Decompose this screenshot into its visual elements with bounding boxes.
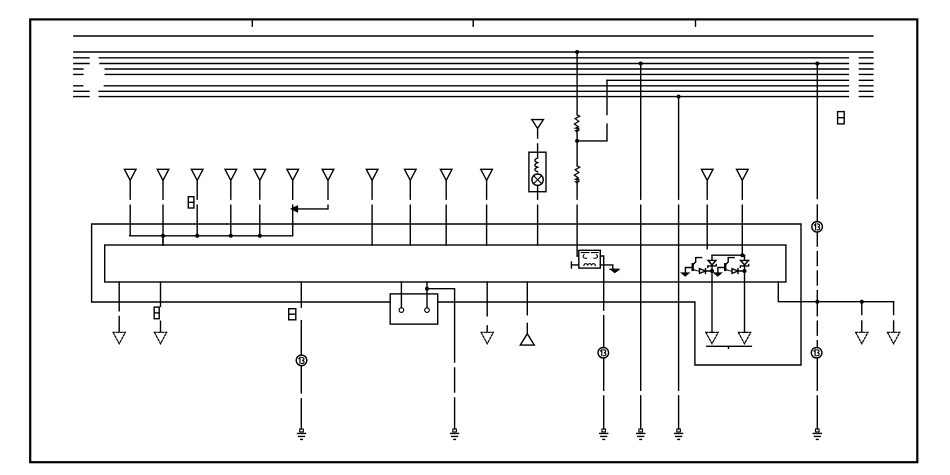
lamp component box xyxy=(529,152,546,192)
splice circle S4 xyxy=(296,355,307,366)
up triangle G4 xyxy=(520,334,534,345)
wire stem A1 xyxy=(129,180,131,235)
wire stem A11 xyxy=(486,180,488,245)
relay branch wire to ground xyxy=(427,289,455,429)
long wire from bus D to ground (x=640) xyxy=(640,64,642,430)
wire stem C2 xyxy=(741,180,743,255)
junction dot x640 on bus D xyxy=(639,62,643,66)
wire bus B xyxy=(74,51,873,53)
wire Z2 to node xyxy=(744,266,746,271)
ground symbol x678 xyxy=(675,429,683,439)
connector triangle A11 xyxy=(481,169,493,180)
connector symbol (2-cell) on stem A3 xyxy=(188,197,194,208)
igniter coil sub-box xyxy=(579,250,601,268)
wire coil to x603 drop xyxy=(600,256,603,282)
wire ECU pin down to shield triangle G3 xyxy=(486,282,488,332)
relay box xyxy=(390,294,438,324)
wire bus D xyxy=(74,63,873,65)
wire stem A2 xyxy=(162,180,164,245)
fusible link FL2 xyxy=(574,166,579,183)
wire stem A9 xyxy=(409,180,411,245)
connector triangle C1 xyxy=(701,169,713,180)
ground symbol x817 xyxy=(813,429,821,439)
connector symbol (2-cell) beside G2 wire xyxy=(154,307,159,319)
spark output triangle P2 (dashed) xyxy=(738,332,750,343)
wire down to triangle G6 xyxy=(893,302,895,332)
junction dot step wire xyxy=(575,139,579,143)
lamp bulb cross xyxy=(534,176,542,184)
wire step from bus G xyxy=(577,80,607,141)
long wire from bus D to ground (x=817) xyxy=(816,64,818,222)
top border tick 3 xyxy=(695,20,697,26)
wire bus C xyxy=(74,57,873,59)
connector triangle A6 xyxy=(287,169,299,180)
junction dot x817 on bus D xyxy=(815,62,819,66)
wire ECU pin down to up-triangle G4 xyxy=(526,282,528,334)
Q2 collector lead xyxy=(725,258,734,265)
connector symbol (2-cell) right of bus dash xyxy=(838,112,845,124)
wire stem B1 xyxy=(537,128,539,152)
zener Z1 xyxy=(708,255,716,267)
connector triangle A3 xyxy=(191,169,203,180)
wire bus J xyxy=(74,96,873,98)
relay wires inside box xyxy=(401,294,427,308)
wire ECU pin down to shield triangle G2 xyxy=(160,282,162,332)
zener Z2 xyxy=(740,255,748,267)
junction dot x678 on bus J xyxy=(677,95,681,99)
coil core dashed line xyxy=(581,252,598,254)
connector triangle C2 xyxy=(737,169,749,180)
wire bus F xyxy=(74,73,873,75)
connector triangle A10 xyxy=(440,169,452,180)
junction dots on collector xyxy=(161,234,262,238)
connector triangle A9 xyxy=(405,169,417,180)
wire bus A xyxy=(74,35,873,37)
splice circle S3 xyxy=(811,347,822,358)
Q1 emitter lead xyxy=(685,268,693,273)
ECU inner unit xyxy=(105,245,786,282)
relay terminal circle 1 xyxy=(399,308,404,313)
Q1 emitter ground wedge xyxy=(681,273,689,276)
Q1 base lead dashes xyxy=(693,269,699,271)
connector triangle A5 xyxy=(254,169,266,180)
junction dot fuse wire on bus B xyxy=(575,50,579,54)
wire stem A5 xyxy=(259,180,261,235)
connector triangle A1 xyxy=(124,169,136,180)
wire ECU right pin to right branch xyxy=(778,282,893,302)
junction dot right branch x862 xyxy=(860,300,864,304)
Q2 emitter lead xyxy=(718,268,726,273)
junction dot Q1 node xyxy=(710,269,714,273)
signal arrow onto stem A6 xyxy=(292,206,298,211)
internal ground wedge xyxy=(612,270,618,272)
wire down to triangle G5 xyxy=(861,302,863,332)
wire stem A7 with bend xyxy=(297,180,329,209)
ground symbol x454 xyxy=(451,429,459,439)
wire below lamp xyxy=(537,185,539,245)
wire ECU pin x301 down xyxy=(300,282,302,429)
junction dot Q2 node xyxy=(743,269,747,273)
top border tick 2 xyxy=(472,20,474,26)
wire FL2 down into ECU xyxy=(577,180,579,256)
top border tick 1 xyxy=(251,20,253,26)
wire stem A3 xyxy=(196,180,198,235)
relay terminal circle 2 xyxy=(425,308,430,313)
wire stem C1 xyxy=(706,180,708,248)
coil secondary winding xyxy=(584,264,595,266)
transistor cluster Q2 xyxy=(714,255,749,332)
shield triangle G1 (dashed) xyxy=(113,332,125,343)
shield triangle G6 (dashed) xyxy=(887,332,899,343)
diode D1 xyxy=(700,269,713,274)
diode D2 xyxy=(732,269,745,274)
wire bus H xyxy=(74,85,873,87)
wire Q1 output down xyxy=(711,271,713,332)
fusible link FL1 xyxy=(574,115,579,132)
wire stem A6 xyxy=(292,180,294,235)
splice circle S1 xyxy=(812,222,823,233)
wire stem A10 xyxy=(445,180,447,245)
connector triangle B1 (above lamp) xyxy=(532,120,544,129)
wire Z1 to node xyxy=(711,266,713,271)
transistor cluster Q1 xyxy=(681,255,716,332)
connector triangle A4 xyxy=(225,169,237,180)
wire stem A8 xyxy=(371,180,373,245)
coil primary curls xyxy=(583,255,597,259)
ECU outer case xyxy=(92,224,801,365)
transistor Q2 base bar xyxy=(724,264,726,270)
spark gap underline xyxy=(707,346,752,348)
connector triangle A7 xyxy=(322,169,334,180)
wire FL1 to FL2 xyxy=(576,128,578,166)
shield triangle G5 (dashed) xyxy=(856,332,868,343)
Q2 base lead dashes xyxy=(726,269,732,271)
wire bus G xyxy=(607,79,873,81)
lamp bulb circle xyxy=(532,174,543,185)
relay wires from ECU pins xyxy=(401,282,427,308)
ground symbol x603 xyxy=(600,429,608,439)
fuse wire from bus B xyxy=(576,52,578,115)
collector wire for shield triangles xyxy=(130,236,293,245)
spark output triangle P1 (dashed) xyxy=(706,332,718,343)
splice circle S2 xyxy=(598,347,609,358)
ground symbol x301 xyxy=(298,429,306,439)
lamp coil squiggle xyxy=(535,152,538,172)
ground symbol x640 xyxy=(637,429,645,439)
transistor Q1 base bar xyxy=(692,264,694,270)
wire Q2 output down xyxy=(744,271,746,332)
wire stem A4 xyxy=(230,180,232,235)
long wire from bus J to ground (x=678) xyxy=(678,97,680,429)
wire x603 drop to ground xyxy=(603,282,605,429)
connector triangle A2 xyxy=(157,169,169,180)
wire bus I xyxy=(74,90,873,92)
Q2 emitter ground wedge xyxy=(714,273,722,276)
coil right pin to internal ground xyxy=(600,265,619,269)
junction dot relay branch xyxy=(425,287,429,291)
connector triangle A8 xyxy=(366,169,378,180)
shield triangle G2 (dashed) xyxy=(154,332,166,343)
transistor cluster link wire xyxy=(712,254,745,256)
junction dot link xyxy=(740,253,744,257)
shield triangle G3 (dashed) xyxy=(481,332,493,343)
Q1 collector lead xyxy=(693,258,702,265)
connector symbol (2-cell) beside x301 wire xyxy=(289,309,296,320)
coil left pin and terminal xyxy=(571,262,578,268)
wire ECU pin down to shield triangle G1 xyxy=(118,282,120,332)
junction dot right branch x817 xyxy=(815,300,819,304)
wire bus E xyxy=(74,68,873,70)
